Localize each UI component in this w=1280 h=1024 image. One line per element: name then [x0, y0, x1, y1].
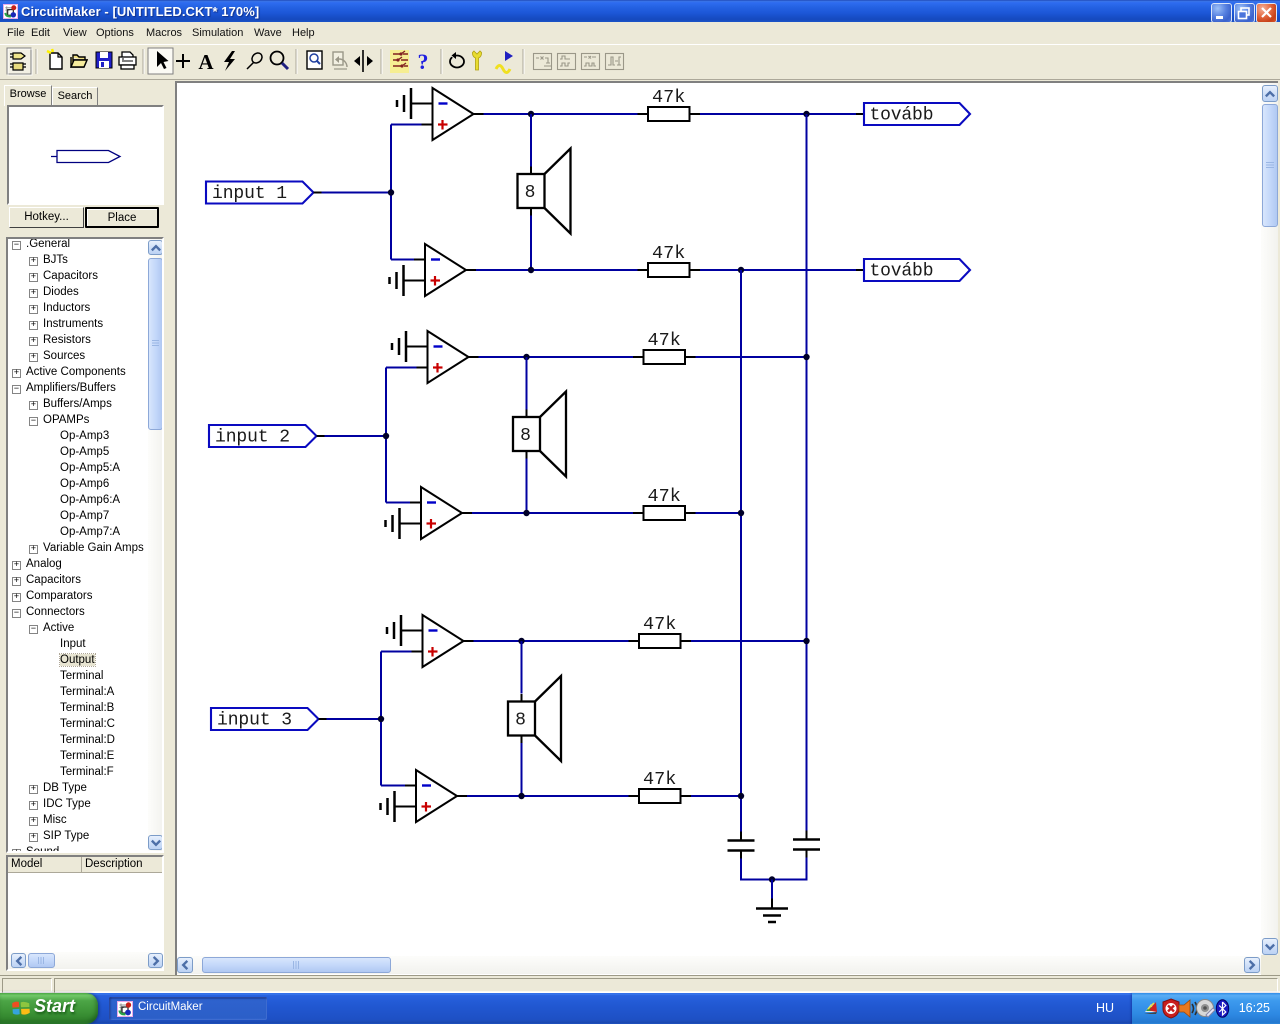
node N3 (U3 out / speaker tap) [523, 354, 529, 360]
resistor R1 47k [638, 87, 701, 121]
op-amp U5 [423, 615, 474, 667]
browse panel toggle button (pressed) [7, 48, 31, 74]
zoom page [307, 51, 322, 69]
node right bus mid [803, 354, 809, 360]
toolbar [0, 44, 1280, 80]
node left bus bottom [738, 793, 744, 799]
wire input3 net [327, 652, 412, 786]
wire U4 minus pin stub [410, 502, 421, 504]
wire input1 net [322, 125, 422, 260]
wire N1 down to speaker LS1 [530, 114, 532, 167]
wire GND1 to U1 minus [411, 103, 433, 105]
wire U6 output [467, 795, 629, 797]
wire R4 to left bus [696, 512, 742, 514]
open folder [71, 55, 87, 67]
wire ground pin stub [771, 899, 773, 909]
node input3 junction [378, 716, 384, 722]
resistor R3 47k [633, 330, 696, 364]
wire R2 to left bus and OUT2 [700, 269, 856, 271]
wire N3 down to speaker LS2 [526, 357, 528, 410]
ground GND6 (U6 plus) [381, 791, 395, 822]
op-amp U4 [421, 487, 472, 539]
rotate (gray) [333, 52, 347, 69]
plus tool [176, 54, 190, 68]
wire GND3 to U3 minus [406, 346, 428, 348]
model/description box [6, 855, 164, 971]
wave + arrow [496, 51, 513, 73]
wire U3 plus pin stub [417, 367, 428, 369]
node N2 (U2 out / speaker tap) [528, 267, 534, 273]
window title bar [0, 0, 1280, 22]
wire U1 output [484, 113, 638, 115]
capacitor C2 [793, 831, 820, 859]
svg-text:A: A [198, 50, 214, 74]
wire right bus vertical [806, 114, 808, 831]
output connector OUT1 "tov&#225;bb" [856, 103, 970, 126]
save floppy [96, 52, 112, 68]
wire R1 to right bus [700, 113, 856, 115]
lightning [224, 51, 235, 71]
node N1 (U1 out / speaker tap) [528, 111, 534, 117]
wire U1 plus pin stub [422, 124, 433, 126]
wires icon [390, 50, 409, 73]
wire U5 plus pin stub [412, 651, 423, 653]
wire left bus vertical [740, 270, 742, 832]
new document [47, 49, 62, 69]
node input2 junction [383, 433, 389, 439]
capacitor C1 [728, 832, 755, 860]
node N5 (U5 out / speaker tap) [518, 638, 524, 644]
left panel tabs [4, 85, 52, 106]
wire U5 output [474, 640, 629, 642]
reset loop [450, 52, 464, 68]
canvas h scrollbar [177, 956, 1261, 974]
wire C1 to ground node [741, 859, 771, 880]
ground GND5 (U5 minus) [387, 615, 401, 646]
input connector J3 "input 3" [211, 708, 327, 731]
component tree [6, 237, 164, 853]
wire GND6 to U6 plus [395, 806, 417, 808]
op-amp U2 [425, 244, 476, 296]
wire input2 net [325, 368, 417, 503]
node N4 (U4 out / speaker tap) [523, 510, 529, 516]
tree scrollbar [148, 239, 164, 851]
resistor R5 47k [629, 614, 692, 648]
node right bus top [803, 111, 809, 117]
menu bar [0, 22, 1280, 44]
grayed scope buttons [534, 54, 624, 70]
op-amp U3 [428, 331, 479, 383]
node right bus bottom [803, 638, 809, 644]
wire U3 output [479, 356, 634, 358]
node left bus mid [738, 510, 744, 516]
print [119, 52, 136, 69]
node N6 (U6 out / speaker tap) [518, 793, 524, 799]
wire GND5 to U5 minus [401, 630, 423, 632]
wire LS2 bottom to N4 [526, 459, 528, 514]
input connector J2 "input 2" [209, 425, 325, 448]
mirror [354, 50, 373, 72]
op-amp U6 [416, 770, 467, 822]
ground GND7 (main) [756, 909, 788, 923]
resistor R4 47k [633, 486, 696, 520]
wire GND4 to U4 plus [400, 523, 422, 525]
taskbar [0, 993, 1280, 1024]
output connector OUT2 "tov&#225;bb" [856, 259, 970, 282]
speaker LS2 8 ohm [513, 392, 566, 477]
wire U2 output [476, 269, 638, 271]
resistor R6 47k [629, 769, 692, 803]
wire R6 to left bus [691, 795, 741, 797]
node ground junction [769, 876, 775, 882]
wire N5 down to speaker LS3 [521, 641, 523, 694]
status bar [0, 975, 1280, 993]
node input1 junction [388, 189, 394, 195]
wire ground node down [771, 880, 773, 899]
ground GND3 (U3 minus) [392, 331, 406, 362]
ground GND2 (U2 plus) [390, 265, 404, 296]
speaker LS3 8 ohm [508, 676, 561, 761]
wire LS3 bottom to N6 [521, 743, 523, 796]
magnifier [271, 52, 289, 70]
wire C2 to ground node [773, 858, 807, 880]
svg-text:?: ? [418, 49, 429, 74]
ground GND1 (U1 minus) [397, 88, 411, 119]
wire LS1 bottom to N2 [530, 216, 532, 271]
wire U4 output [472, 512, 633, 514]
wire U2 minus pin stub [414, 259, 425, 261]
resistor R2 47k [638, 243, 701, 277]
wire U6 minus pin stub [405, 785, 416, 787]
node left bus top [738, 267, 744, 273]
input connector J1 "input 1" [206, 182, 322, 205]
wrench (yellow) [472, 51, 481, 70]
op-amp U1 [433, 88, 484, 140]
wire GND2 to U2 plus [404, 280, 426, 282]
schematic canvas [175, 81, 1279, 976]
canvas v scrollbar [1261, 83, 1278, 955]
ground GND4 (U4 plus) [386, 508, 400, 539]
speaker LS1 8 ohm [518, 149, 571, 234]
wire R5 to right bus [691, 640, 807, 642]
probe [247, 51, 264, 69]
wire R3 to right bus [696, 356, 807, 358]
arrow tool (selected) [148, 48, 173, 74]
